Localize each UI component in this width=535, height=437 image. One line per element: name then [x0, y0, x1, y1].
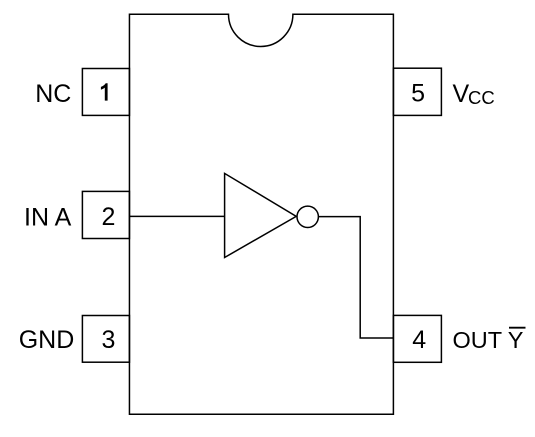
svg-text:4: 4: [412, 326, 426, 354]
svg-text:CC: CC: [468, 87, 495, 108]
svg-text:OUT Y: OUT Y: [453, 327, 524, 353]
svg-text:5: 5: [411, 80, 425, 108]
svg-text:NC: NC: [35, 80, 71, 108]
svg-text:V: V: [453, 80, 470, 108]
svg-text:IN A: IN A: [24, 203, 72, 231]
svg-text:GND: GND: [19, 326, 75, 354]
svg-text:3: 3: [102, 326, 116, 354]
svg-text:2: 2: [102, 203, 116, 231]
